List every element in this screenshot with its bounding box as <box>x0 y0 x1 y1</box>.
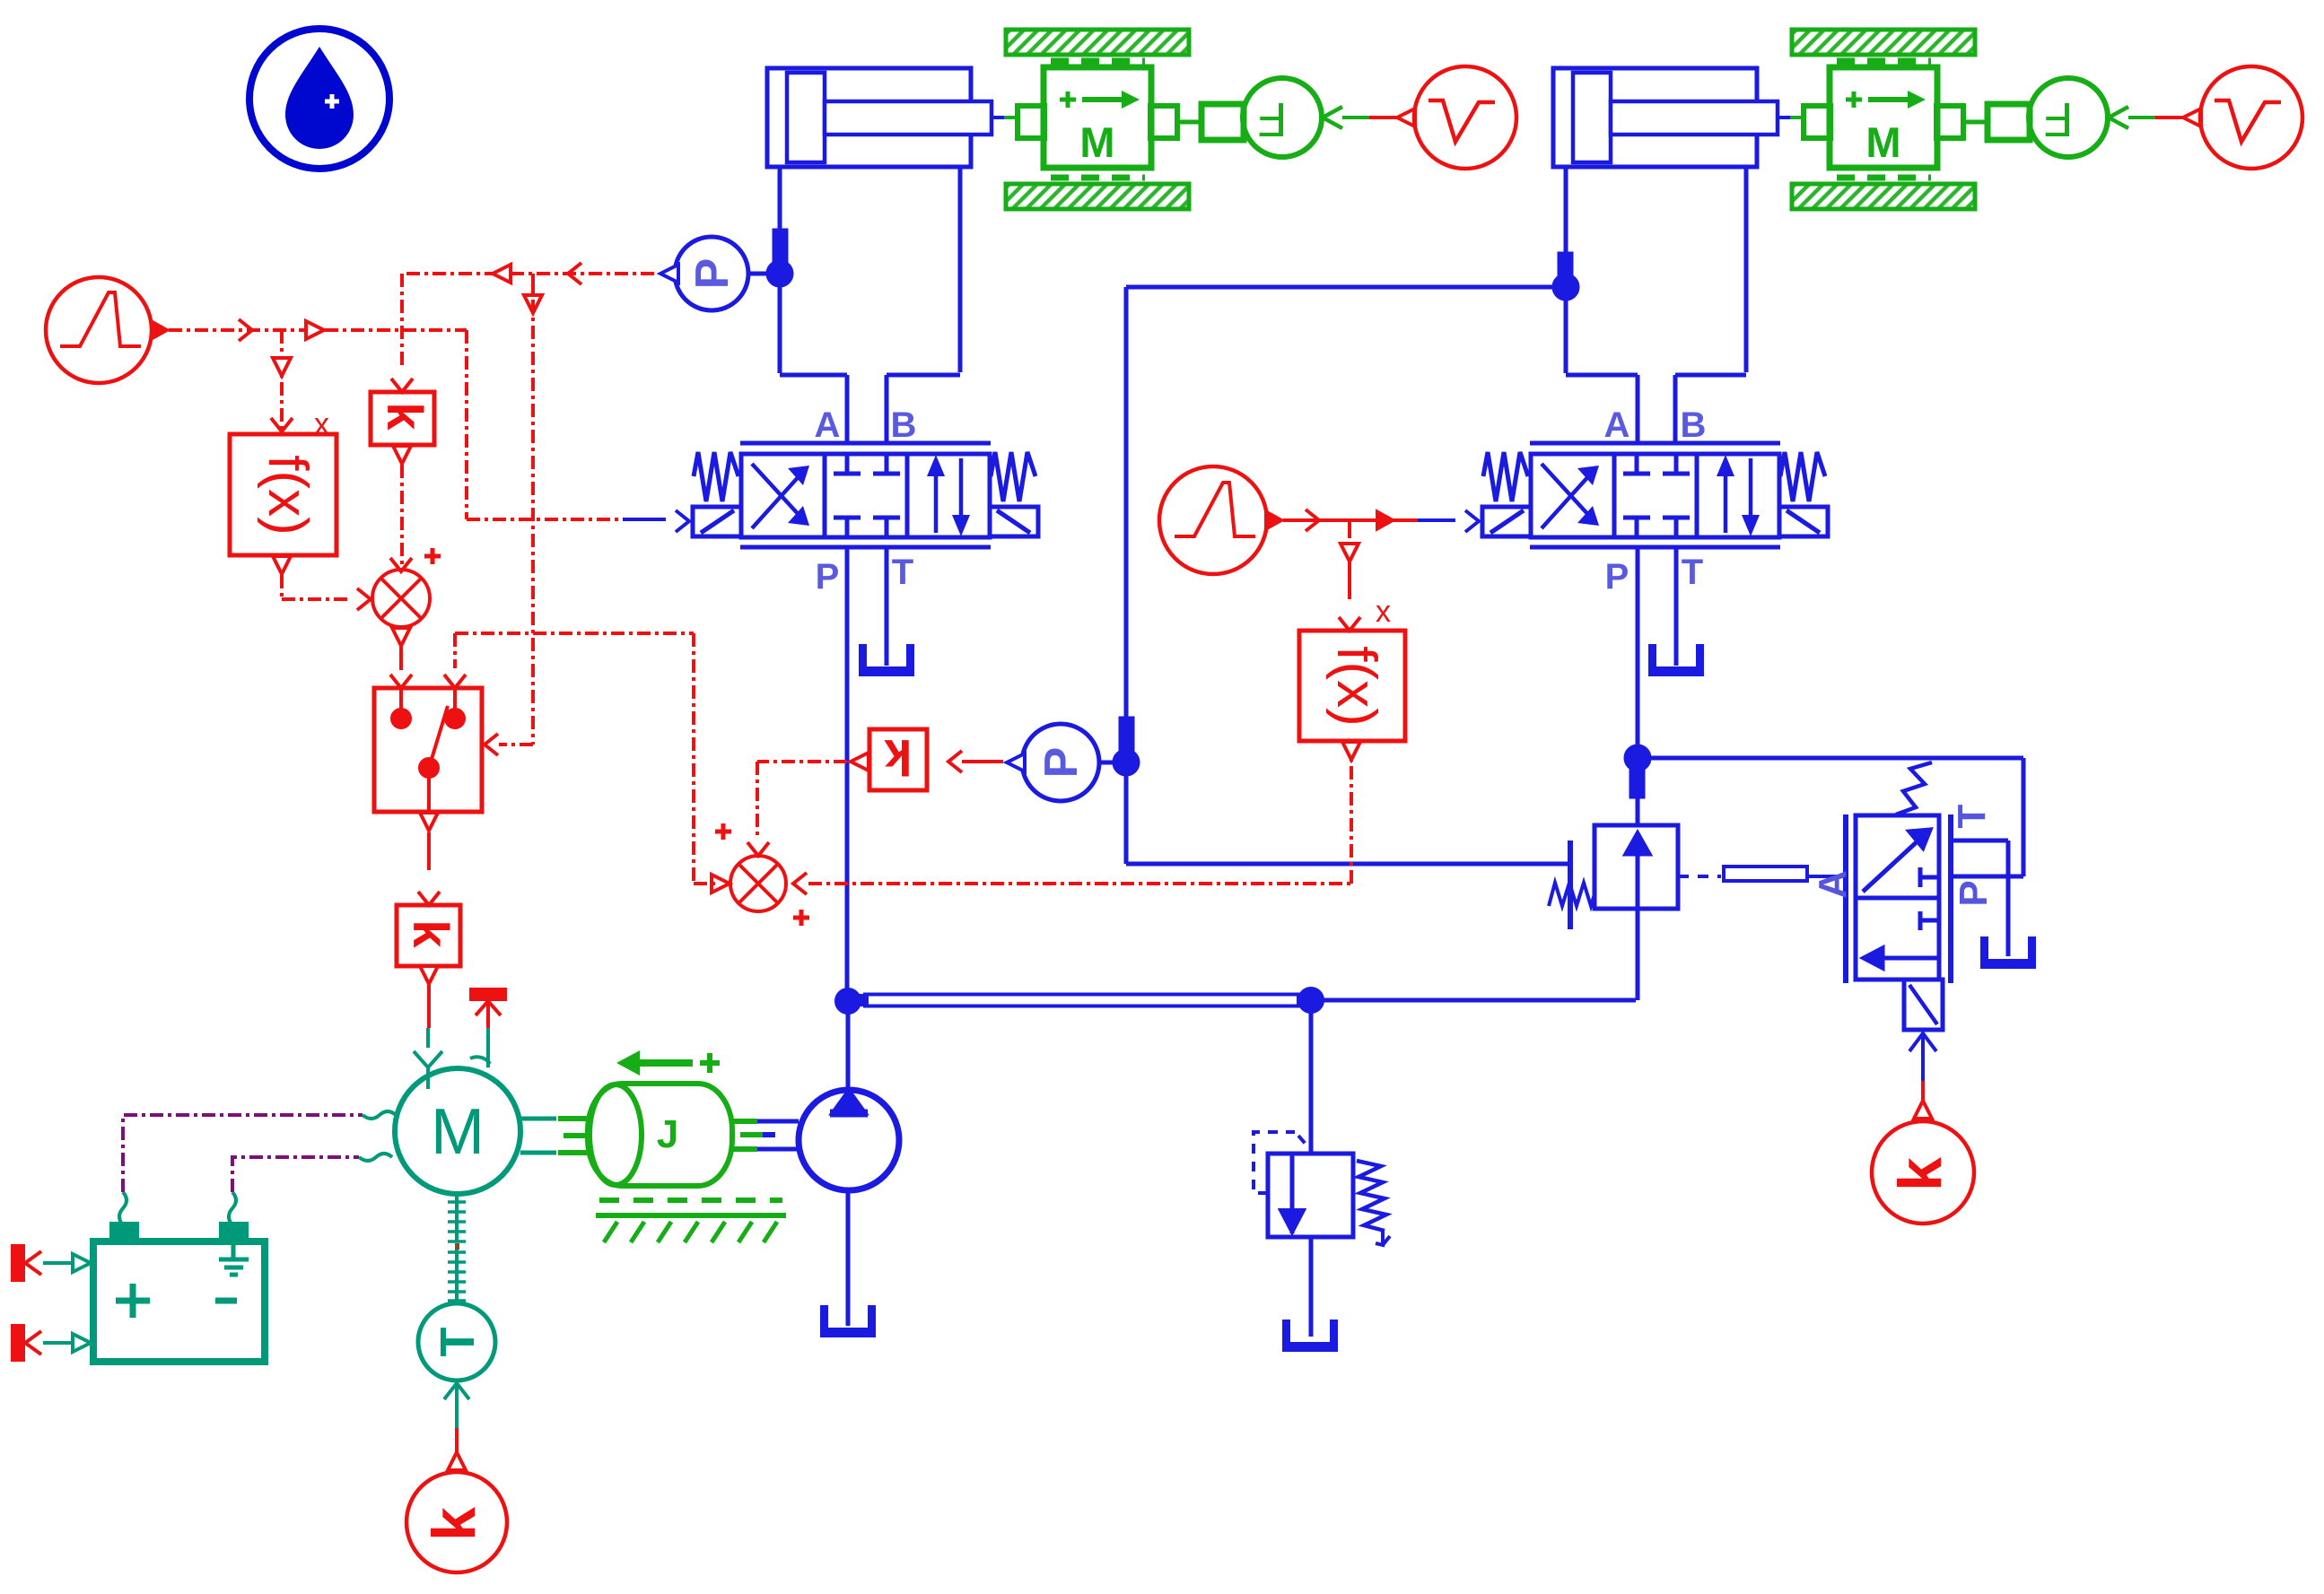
svg-text:f(x): f(x) <box>1325 646 1387 727</box>
svg-text:T: T <box>892 553 913 592</box>
svg-text:P: P <box>1952 880 1996 906</box>
svg-text:k: k <box>403 919 459 948</box>
svg-text:k: k <box>1886 1157 1954 1191</box>
svg-text:A: A <box>1811 870 1855 899</box>
svg-text:P: P <box>1035 747 1088 779</box>
svg-text:k: k <box>884 729 913 786</box>
svg-text:B: B <box>891 405 917 445</box>
svg-text:A: A <box>815 405 841 445</box>
svg-text:J: J <box>657 1112 678 1156</box>
svg-text:k: k <box>420 1507 488 1541</box>
svg-text:P: P <box>686 258 738 290</box>
svg-text:M: M <box>431 1096 485 1168</box>
svg-text:P: P <box>816 557 840 597</box>
svg-text:T: T <box>431 1328 485 1357</box>
svg-text:F: F <box>1258 92 1288 146</box>
svg-text:f(x): f(x) <box>257 455 319 536</box>
svg-text:M: M <box>1079 118 1114 166</box>
svg-text:k: k <box>377 402 433 431</box>
svg-text:T: T <box>1950 804 1994 828</box>
svg-text:x: x <box>1376 595 1391 629</box>
